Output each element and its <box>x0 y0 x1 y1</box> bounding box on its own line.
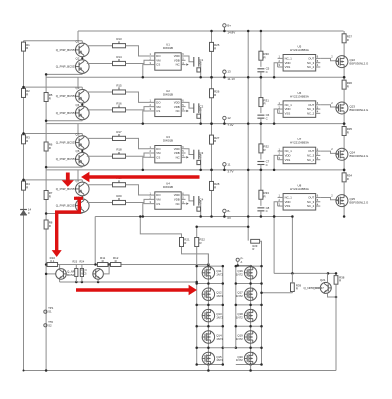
svg-text:Q_PNP_BC557: Q_PNP_BC557 <box>56 111 77 115</box>
svg-text:Q_PNP_BC557: Q_PNP_BC557 <box>56 65 77 69</box>
svg-text:R: R <box>118 104 120 108</box>
wire <box>343 170 345 173</box>
transistor Q24 (N-MOSFET) <box>336 148 369 161</box>
wire right bank chain <box>250 266 252 365</box>
capacitor C1 <box>194 57 204 67</box>
transistor Q19 (N-MOSFET) <box>236 331 257 344</box>
svg-text:VSS: VSS <box>285 65 291 69</box>
svg-text:1N72: 1N72 <box>216 337 223 341</box>
svg-text:1N72: 1N72 <box>236 358 243 362</box>
wire transistor chain <box>81 87 83 89</box>
wire emitter return to sense column <box>46 73 82 75</box>
wire bank crossbar right <box>236 347 262 349</box>
resistor R17 <box>113 130 126 141</box>
net flag 13 <box>223 70 235 81</box>
wire bank crossbar <box>197 304 223 306</box>
wire <box>260 165 262 170</box>
wire B- drops <box>273 217 275 274</box>
wire to upper resistor <box>87 137 113 139</box>
svg-text:Q7: Q7 <box>76 179 80 183</box>
resistor R28 <box>210 181 220 190</box>
polarity box <box>197 114 201 118</box>
svg-text:R: R <box>347 38 349 42</box>
svg-text:NC: NC <box>176 63 180 67</box>
red arrow left (long) <box>81 172 199 183</box>
transistor Q13 (N-MOSFET) <box>202 309 223 322</box>
svg-text:VSS: VSS <box>285 204 291 208</box>
wire lower resistor to VM pin <box>126 199 149 202</box>
wire <box>46 264 97 266</box>
polarity box <box>197 160 201 164</box>
svg-text:11.1V: 11.1V <box>227 77 235 81</box>
svg-text:HY2213-BB3A: HY2213-BB3A <box>290 187 309 191</box>
wire to lower resistor <box>87 155 113 157</box>
svg-text:HY2213-BB3A: HY2213-BB3A <box>290 94 309 98</box>
svg-text:BC5: BC5 <box>81 271 87 275</box>
wire to lower resistor <box>87 109 113 111</box>
net flag 12 <box>223 116 234 127</box>
svg-text:R: R <box>118 58 120 62</box>
wire upper resistor to DO pin <box>126 92 149 102</box>
wire bottom return bus <box>24 370 337 372</box>
wire upper resistor to DO pin <box>126 138 149 148</box>
resistor R29 (gate feed) <box>251 239 260 251</box>
transistor Q5 (PNP) <box>56 132 89 149</box>
svg-text:NC: NC <box>176 155 180 159</box>
wire <box>260 60 262 67</box>
wire <box>260 107 262 114</box>
wire right bank right bus <box>261 247 263 365</box>
wire riser to rail <box>77 77 79 87</box>
capacitor C5 <box>257 67 269 74</box>
svg-text:DW01B: DW01B <box>163 92 173 96</box>
wire to upper resistor <box>87 45 113 47</box>
svg-text:R: R <box>184 241 186 245</box>
svg-text:VSS: VSS <box>285 111 291 115</box>
wire upper resistor to DO pin <box>126 46 149 56</box>
svg-text:BSF030NL2.G: BSF030NL2.G <box>350 61 370 65</box>
resistor R1 <box>22 42 31 51</box>
svg-text:C: C <box>266 70 268 74</box>
diode D1 (zener) on left bus <box>20 208 31 216</box>
wire emitter Q21 <box>328 293 337 297</box>
wire emitter return to sense column <box>46 166 82 168</box>
wire OUT to gate <box>320 197 338 199</box>
node cell2 group row 3 <box>22 122 370 171</box>
transistor Q9 (NPN) <box>56 268 67 279</box>
IC U2 DW01B <box>149 89 189 117</box>
svg-text:R: R <box>49 97 51 101</box>
capacitor C4 <box>194 196 204 206</box>
svg-text:R: R <box>118 87 120 91</box>
red arrow path (thick bent) <box>52 198 83 257</box>
svg-text:R: R <box>214 139 216 143</box>
transistor Q4 (PNP) <box>56 103 89 120</box>
resistor R5 <box>44 93 53 102</box>
wire <box>343 124 345 127</box>
wire <box>260 77 262 97</box>
transistor Q14 (N-MOSFET) <box>202 331 223 344</box>
resistor R14 <box>113 55 126 66</box>
resistor R31 <box>259 98 269 107</box>
wire VDD/VSS to rails <box>277 109 279 113</box>
svg-text:NC: NC <box>176 109 180 113</box>
net flag neg <box>44 320 54 328</box>
wire <box>260 170 262 190</box>
wire emitter return to sense column <box>46 212 82 214</box>
wire transistor chain <box>81 41 83 43</box>
svg-text:1N72: 1N72 <box>236 273 243 277</box>
wire OUT to gate <box>320 105 338 107</box>
svg-text:1N72: 1N72 <box>236 294 243 298</box>
transistor Q7 (PNP) <box>56 179 89 196</box>
svg-text:1N72: 1N72 <box>236 337 243 341</box>
wire CS pin to lower rail <box>143 157 149 170</box>
transistor Q25 (N-MOSFET) <box>336 194 369 207</box>
wire lower resistor to VM pin <box>126 153 149 156</box>
wire cap to lower rail <box>199 62 201 78</box>
wire bank to bottom bus <box>207 365 209 371</box>
svg-text:DW01B: DW01B <box>163 139 173 143</box>
resistor R12 <box>110 256 121 267</box>
wire emitter return to sense column <box>46 120 82 122</box>
wire VDD/VSS to rails <box>277 202 279 206</box>
net flag 11 <box>223 162 234 173</box>
IC U4 DW01B <box>149 182 189 210</box>
svg-text:1N72: 1N72 <box>216 315 223 319</box>
svg-text:7.4V: 7.4V <box>227 123 233 127</box>
wire base Q21 <box>312 287 321 289</box>
wire riser to rail <box>77 170 79 180</box>
wire VDD pin to cap <box>186 149 194 155</box>
transistor Q11 (N-MOSFET) <box>202 266 223 279</box>
svg-text:R: R <box>347 84 349 88</box>
resistor R33 <box>259 190 269 199</box>
wire source to lower rail <box>343 68 345 78</box>
svg-text:R23: R23 <box>73 261 78 264</box>
wire base drive row <box>24 86 83 88</box>
svg-text:Q_PNP_BC557: Q_PNP_BC557 <box>56 48 77 52</box>
svg-text:0V: 0V <box>227 216 231 220</box>
resistor R21 <box>180 238 190 247</box>
red arrow down (small) <box>62 173 74 187</box>
transistor Q23 (N-MOSFET) <box>336 102 369 115</box>
transistor Q16 (N-MOSFET) <box>236 266 257 279</box>
wire <box>343 89 345 102</box>
wire sense row to bank <box>120 264 208 266</box>
resistor R36 <box>342 80 352 89</box>
svg-text:R: R <box>264 102 266 106</box>
resistor R15 <box>113 83 126 94</box>
svg-text:HY2213-BB3A: HY2213-BB3A <box>290 141 309 145</box>
wire bank crossbar <box>197 364 223 366</box>
svg-text:Q_PNP_BC557: Q_PNP_BC557 <box>56 204 77 208</box>
polarity box <box>197 207 201 211</box>
svg-text:B+: B+ <box>227 23 231 27</box>
net flag TP1 <box>44 306 54 314</box>
net flag B+ <box>223 23 236 34</box>
svg-text:DW01B: DW01B <box>163 46 173 50</box>
transistor Q12 (N-MOSFET) <box>202 288 223 301</box>
svg-text:Q4: Q4 <box>76 103 80 107</box>
svg-text:CS: CS <box>156 63 160 67</box>
wire riser to rail <box>77 31 79 41</box>
net flag B- <box>223 209 231 220</box>
transistor Q21 (NPN) <box>320 282 331 294</box>
svg-text:R: R <box>49 195 51 199</box>
wire P- feed column <box>247 31 249 241</box>
polarity box <box>197 68 201 72</box>
svg-text:CS: CS <box>156 155 160 159</box>
svg-text:R24: R24 <box>80 261 85 264</box>
resistor R2 <box>22 88 31 97</box>
wire VDD pin to cap <box>186 56 194 62</box>
wire bank crossbar right <box>236 325 262 327</box>
wire <box>343 31 345 34</box>
svg-text:R: R <box>214 47 216 51</box>
svg-text:R: R <box>118 151 120 155</box>
svg-text:R: R <box>49 224 51 228</box>
wire cap to lower rail <box>199 201 201 217</box>
svg-text:R: R <box>264 148 266 152</box>
resistor R25 <box>210 42 220 51</box>
resistor R7 <box>44 191 53 200</box>
transistor Q8 (PNP) <box>56 195 89 212</box>
resistor R39 <box>291 283 295 292</box>
svg-text:A: A <box>241 260 243 264</box>
resistor R32 <box>259 144 269 153</box>
wire collector rail <box>274 272 336 274</box>
svg-text:HY2213-BB3A: HY2213-BB3A <box>290 48 309 52</box>
wire left bank right bus <box>222 266 224 364</box>
red arrow right (long) <box>76 285 197 296</box>
resistor R38 <box>334 275 345 284</box>
wire divider column <box>211 31 213 217</box>
wire CS pin to lower rail <box>143 65 149 78</box>
svg-text:Q_PNP_BC557: Q_PNP_BC557 <box>56 141 77 145</box>
svg-text:BSF030NL2.G: BSF030NL2.G <box>350 108 370 112</box>
wire <box>260 199 262 206</box>
rail cell3 <box>46 76 344 78</box>
svg-text:R: R <box>264 194 266 198</box>
svg-text:R: R <box>49 146 51 150</box>
transistor Q22 (N-MOSFET) <box>336 55 369 68</box>
svg-text:Q6: Q6 <box>76 149 80 153</box>
wire upper resistor to DO pin <box>126 185 149 195</box>
net flag P- <box>236 256 251 266</box>
wire base drive row <box>24 133 83 135</box>
wire A gate feed <box>197 226 249 228</box>
node cell1 group row 4 <box>22 169 370 218</box>
svg-text:NC_2: NC_2 <box>307 158 315 162</box>
svg-text:CS: CS <box>156 202 160 206</box>
svg-text:14.8V: 14.8V <box>227 31 235 35</box>
wire emitter row <box>59 279 61 282</box>
svg-text:Q5: Q5 <box>76 132 80 136</box>
wire VDD/VSS to rails <box>277 155 279 159</box>
svg-text:CS: CS <box>156 109 160 113</box>
wire cap to lower rail <box>199 108 201 123</box>
svg-text:0.1: 0.1 <box>50 259 54 263</box>
svg-text:Q21: Q21 <box>320 278 326 282</box>
svg-text:R: R <box>102 259 104 263</box>
resistor R24 <box>80 261 85 277</box>
wire base drive row <box>24 179 83 181</box>
IC U8 HY2213-BB3A <box>278 184 321 211</box>
resistor R18 <box>113 148 126 159</box>
wire CS row4 drop to R21 <box>140 217 181 238</box>
resistor R6 <box>44 142 53 151</box>
resistor R11 <box>97 256 108 267</box>
wire base Q9 <box>46 273 56 275</box>
transistor Q20 (N-MOSFET) <box>236 352 257 365</box>
IC U7 HY2213-BB3A <box>278 137 321 164</box>
svg-text:1N72: 1N72 <box>236 315 243 319</box>
svg-text:BSF030NL2.G: BSF030NL2.G <box>350 154 370 158</box>
wire bank crossbar right <box>236 283 262 285</box>
wire VDD pin to cap <box>186 102 194 108</box>
rail B+ (top) <box>78 30 344 32</box>
node cell4 group row 1 <box>22 30 370 79</box>
svg-text:R: R <box>26 139 28 143</box>
svg-text:NC: NC <box>176 202 180 206</box>
transistor Q9 leads <box>59 265 61 269</box>
wire right bank gate bus <box>235 265 237 347</box>
capacitor C6 <box>257 113 269 120</box>
wire transistor chain <box>81 134 83 136</box>
svg-text:R: R <box>118 197 120 201</box>
wire lower resistor to VM pin <box>126 60 149 63</box>
wire base drive row <box>24 40 83 42</box>
svg-text:Q_PNP_BC557: Q_PNP_BC557 <box>56 187 77 191</box>
svg-text:R: R <box>115 259 117 263</box>
IC U3 DW01B <box>149 135 189 163</box>
wire <box>260 211 262 217</box>
svg-text:R: R <box>26 46 28 50</box>
svg-text:R: R <box>347 177 349 181</box>
wire R29 to right bank bus <box>260 241 262 246</box>
wire bank crossbar <box>197 283 223 285</box>
wire <box>260 118 262 123</box>
resistor R26 <box>210 89 220 98</box>
wire <box>260 72 262 78</box>
wire sense row upper <box>45 264 47 266</box>
svg-text:12: 12 <box>227 116 231 120</box>
wire <box>260 124 262 144</box>
wire CS pin to lower rail <box>143 111 149 124</box>
svg-text:R: R <box>264 55 266 59</box>
wire <box>260 31 262 51</box>
resistor R30 <box>259 51 269 60</box>
svg-text:S2: S2 <box>48 323 52 327</box>
wire bank crossbar <box>197 325 223 327</box>
svg-text:BSF030NL2.G: BSF030NL2.G <box>350 200 370 204</box>
rail cell1 <box>46 169 344 171</box>
svg-text:C: C <box>266 163 268 167</box>
wire source to lower rail <box>343 160 345 170</box>
svg-text:R: R <box>347 131 349 135</box>
transistor Q2 (PNP) <box>56 56 89 73</box>
svg-text:R: R <box>214 186 216 190</box>
wire OUT to gate <box>320 151 338 153</box>
wire collector Q21 <box>327 273 329 282</box>
svg-text:NC_2: NC_2 <box>307 65 315 69</box>
svg-text:1N72: 1N72 <box>216 273 223 277</box>
resistor R4 <box>22 181 31 190</box>
resistor R34 <box>342 173 352 182</box>
svg-text:VSS: VSS <box>285 158 291 162</box>
wire source to lower rail <box>343 114 345 124</box>
node cell3 group row 2 <box>22 76 370 125</box>
wire from bank right bus <box>262 292 293 294</box>
svg-text:S1: S1 <box>48 310 52 314</box>
svg-text:R: R <box>296 287 298 291</box>
svg-text:R: R <box>26 93 28 97</box>
svg-text:R: R <box>339 279 341 283</box>
svg-text:R: R <box>214 93 216 97</box>
resistor R23 <box>73 261 78 277</box>
svg-text:Q3: Q3 <box>76 86 80 90</box>
svg-text:Q2: Q2 <box>76 56 80 60</box>
resistor R22 <box>195 238 205 247</box>
wire transistor chain <box>81 180 83 182</box>
IC U5 HY2213-BB3A <box>278 45 321 72</box>
svg-text:13: 13 <box>227 70 231 74</box>
wire gate bus left bank <box>196 247 198 365</box>
wire lower resistor to VM pin <box>126 107 149 110</box>
wire riser to rail <box>77 124 79 134</box>
resistor R3 <box>22 135 31 144</box>
rail B- <box>95 216 292 218</box>
wire to upper resistor <box>87 184 113 186</box>
svg-text:C: C <box>266 209 268 213</box>
transistor Q17 (N-MOSFET) <box>236 288 257 301</box>
svg-text:NC_2: NC_2 <box>307 111 315 115</box>
resistor R35 <box>342 127 352 136</box>
svg-text:R: R <box>118 179 120 183</box>
wire <box>343 136 345 149</box>
wire <box>260 153 262 160</box>
wire bank crossbar <box>197 347 223 349</box>
svg-text:R: R <box>118 133 120 137</box>
svg-text:Q1: Q1 <box>76 40 80 44</box>
resistor R16 <box>113 101 126 112</box>
wire <box>343 182 345 195</box>
wire bank crossbar right <box>236 304 262 306</box>
wire <box>343 77 345 80</box>
wire Q10 base riser <box>103 265 109 274</box>
wire R21 to left bank drain <box>182 247 209 266</box>
wire OUT to gate <box>320 58 338 60</box>
svg-text:P-: P- <box>241 256 244 260</box>
wire bank crossbar right <box>236 265 262 267</box>
wire R22 top to wire A <box>196 227 198 238</box>
resistor R10 <box>47 256 58 267</box>
svg-text:C: C <box>266 116 268 120</box>
capacitor C2 <box>194 103 204 113</box>
svg-text:1N72: 1N72 <box>216 358 223 362</box>
transistor Q1 (PNP) <box>56 40 89 57</box>
svg-text:R: R <box>118 40 120 44</box>
resistor R20 <box>113 194 126 205</box>
capacitor C3 <box>194 150 204 160</box>
resistor R13 <box>113 37 126 48</box>
resistor R19 <box>113 176 126 187</box>
IC U6 HY2213-BB3A <box>278 91 321 118</box>
wire to lower resistor <box>87 202 113 204</box>
transistor Q18 (N-MOSFET) <box>236 309 257 322</box>
wire second sense column (vertical) <box>45 74 47 370</box>
